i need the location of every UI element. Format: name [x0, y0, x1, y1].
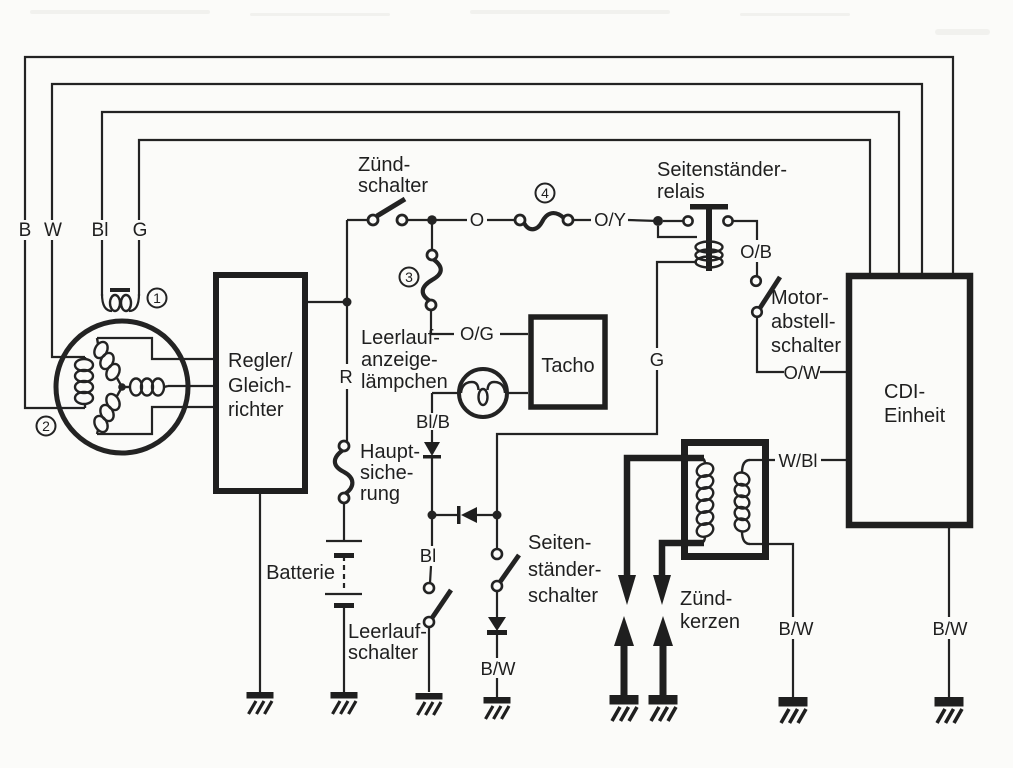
svg-text:Einheit: Einheit [884, 405, 946, 427]
svg-text:Zünd-: Zünd- [680, 588, 732, 610]
svg-text:1: 1 [153, 290, 161, 306]
svg-text:O/B: O/B [740, 241, 772, 262]
svg-text:G: G [133, 220, 148, 241]
svg-text:Batterie: Batterie [266, 562, 335, 584]
svg-text:anzeige-: anzeige- [361, 349, 438, 371]
svg-text:R: R [339, 366, 352, 387]
svg-text:B/W: B/W [481, 658, 516, 679]
svg-text:schalter: schalter [771, 335, 841, 357]
svg-text:Leerlauf-: Leerlauf- [361, 327, 440, 349]
svg-text:Bl: Bl [92, 220, 109, 241]
svg-text:relais: relais [657, 181, 705, 203]
svg-text:O/Y: O/Y [594, 209, 626, 230]
svg-text:W: W [44, 220, 62, 241]
svg-text:Gleich-: Gleich- [228, 375, 291, 397]
svg-text:schalter: schalter [358, 175, 428, 197]
svg-text:Bl/B: Bl/B [416, 411, 450, 432]
svg-text:G: G [650, 349, 664, 370]
svg-text:B: B [19, 220, 32, 241]
svg-text:Tacho: Tacho [541, 355, 594, 377]
svg-text:O: O [470, 209, 484, 230]
svg-text:richter: richter [228, 399, 284, 421]
svg-text:Leerlauf-: Leerlauf- [348, 621, 427, 643]
svg-text:schalter: schalter [348, 642, 418, 664]
svg-text:rung: rung [360, 483, 400, 505]
svg-text:B/W: B/W [779, 618, 814, 639]
svg-text:CDI-: CDI- [884, 381, 925, 403]
svg-text:siche-: siche- [360, 462, 413, 484]
svg-text:Regler/: Regler/ [228, 350, 293, 372]
svg-text:Zünd-: Zünd- [358, 154, 410, 176]
svg-text:2: 2 [42, 418, 50, 434]
svg-text:Motor-: Motor- [771, 287, 829, 309]
svg-text:lämpchen: lämpchen [361, 371, 448, 393]
svg-text:abstell-: abstell- [771, 311, 835, 333]
svg-text:B/W: B/W [933, 618, 968, 639]
svg-text:Haupt-: Haupt- [360, 441, 420, 463]
svg-text:Bl: Bl [420, 545, 436, 566]
svg-text:O/G: O/G [460, 323, 494, 344]
svg-text:Seiten-: Seiten- [528, 532, 591, 554]
svg-text:O/W: O/W [784, 362, 822, 383]
svg-text:W/Bl: W/Bl [778, 450, 817, 471]
svg-text:3: 3 [405, 269, 413, 285]
svg-text:Seitenständer-: Seitenständer- [657, 159, 787, 181]
svg-text:ständer-: ständer- [528, 559, 601, 581]
svg-text:schalter: schalter [528, 585, 598, 607]
svg-text:4: 4 [541, 185, 549, 201]
svg-text:kerzen: kerzen [680, 611, 740, 633]
